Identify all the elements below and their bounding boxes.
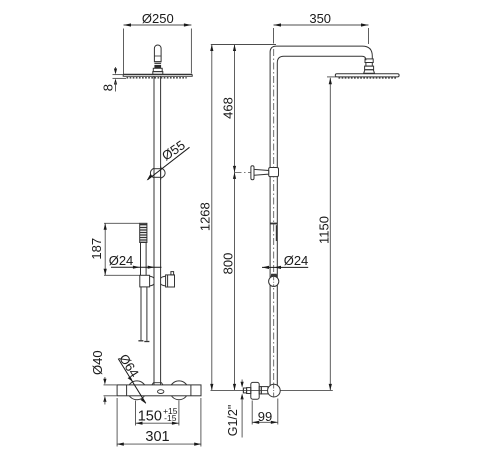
dimension 800	[221, 172, 236, 390]
mixer bar body (front)	[117, 383, 201, 396]
dimension 1268	[197, 45, 213, 391]
svg-text:Ø64: Ø64	[116, 351, 142, 380]
svg-text:301: 301	[145, 429, 169, 445]
hose	[138, 287, 149, 342]
top extension line	[211, 44, 276, 46]
dimension 187	[89, 223, 140, 275]
dimension Ø250	[124, 11, 192, 74]
top connector	[153, 45, 163, 74]
tube joint	[270, 224, 277, 242]
svg-text:800: 800	[221, 253, 236, 275]
dimension 1150	[317, 77, 336, 391]
label Ø55 with leader	[147, 137, 190, 180]
svg-text:468: 468	[221, 97, 236, 119]
arm-to-head connector rings	[364, 59, 375, 73]
svg-text:Ø24: Ø24	[284, 253, 309, 268]
svg-text:Ø250: Ø250	[142, 11, 174, 26]
svg-text:Ø40: Ø40	[90, 350, 105, 375]
svg-text:8: 8	[101, 84, 116, 91]
dimension 301	[117, 398, 201, 447]
hand shower	[140, 223, 147, 275]
label G1/2"	[226, 380, 244, 438]
dimension 150 +15/-15	[136, 401, 179, 426]
dimension 99	[252, 399, 278, 425]
svg-text:Ø24: Ø24	[109, 253, 134, 268]
mixer knobs (front)	[127, 381, 188, 400]
dimension Ø40	[90, 350, 117, 404]
dimension 468	[221, 45, 236, 173]
dimension 8	[101, 67, 127, 92]
svg-text:187: 187	[89, 238, 104, 260]
svg-text:150: 150	[138, 409, 162, 425]
slider lock side view	[235, 166, 279, 180]
mixer side view	[243, 382, 280, 399]
slider ring on pipe	[150, 166, 165, 180]
column and arm side view	[270, 46, 372, 398]
shower holder	[140, 272, 175, 287]
svg-text:1268: 1268	[197, 202, 212, 231]
svg-text:-15: -15	[164, 413, 177, 423]
shower head side view	[335, 74, 399, 78]
dimension 350	[274, 11, 369, 44]
label Ø24 (hand shower / pipe)	[109, 253, 162, 269]
bottom centerline extension	[211, 389, 333, 391]
svg-text:99: 99	[258, 409, 272, 424]
svg-text:1150: 1150	[317, 216, 332, 244]
label Ø24 (column side)	[262, 253, 308, 269]
shower head front view	[123, 74, 192, 77]
svg-text:G1/2": G1/2"	[226, 405, 240, 437]
svg-text:350: 350	[309, 11, 331, 26]
label Ø64 with leader	[116, 351, 146, 403]
column pipe front view	[154, 76, 161, 385]
holder knob side view	[269, 274, 279, 286]
